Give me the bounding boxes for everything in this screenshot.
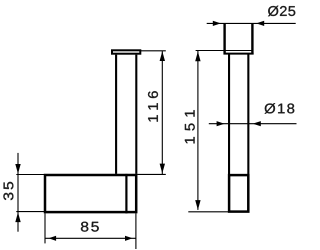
arrowhead 85 right — [125, 236, 133, 241]
arrowhead d18 right (pointing left at tube) — [253, 121, 261, 126]
roll arm rectangle (front view) — [45, 175, 136, 212]
label 85 — [81, 222, 99, 232]
arrowhead d25 left (pointing right at collar) — [213, 21, 221, 26]
label 151 — [185, 110, 195, 143]
arrowhead 116 bottom — [160, 164, 165, 174]
flange cap of post (front view) — [112, 50, 140, 53]
post tube right edge (front view) — [135, 55, 137, 174]
label diameter 18 — [265, 103, 295, 113]
collar right edge (side view) — [251, 23, 253, 54]
extension line right of dim 85 — [135, 213, 137, 249]
post tube left edge (front view) — [115, 55, 117, 174]
post tube right edge (side view) — [247, 55, 249, 176]
extension line bottom of dim 151 — [188, 211, 229, 213]
dimension line 85 — [45, 237, 136, 239]
arm joint inner line — [125, 174, 127, 214]
collar lip upper line plus 151 top extension line — [196, 50, 252, 52]
dimension line diameter-18 across tube — [209, 123, 297, 125]
extension line top of dim 116 — [141, 50, 166, 52]
label 116 — [148, 91, 158, 121]
extension line left of dim 85 — [44, 213, 46, 243]
arrowhead 85 left — [49, 236, 57, 241]
extension line top of dim 35 — [16, 174, 45, 176]
dimension line diameter-25 across collar top — [207, 22, 296, 24]
extension line bottom of dim 116 — [137, 173, 165, 175]
extension line bottom of dim 35 — [16, 211, 45, 213]
label diameter 25 — [268, 6, 295, 16]
dimension line 35 (continuous with tails) — [17, 153, 19, 232]
arrowhead d25 right (pointing left at collar) — [256, 21, 264, 26]
arrowhead 35 top (outside, pointing down) — [15, 164, 20, 174]
arrowhead 151 bottom (pointing down) — [195, 200, 200, 210]
post tube left edge (side view) — [228, 55, 230, 176]
arrowhead 116 top — [160, 51, 165, 61]
dimension line 151 — [197, 51, 199, 210]
dimension line 116 — [161, 51, 163, 174]
arm end block (side view) — [229, 175, 248, 212]
collar bottom edge — [224, 53, 254, 55]
arrowhead 35 bottom (outside, pointing up) — [15, 212, 20, 222]
arrowhead 151 top (pointing up) — [195, 51, 200, 61]
arrowhead d18 left (pointing right at tube) — [217, 121, 225, 126]
collar left edge (side view) — [223, 23, 225, 54]
label 35 — [3, 182, 13, 200]
